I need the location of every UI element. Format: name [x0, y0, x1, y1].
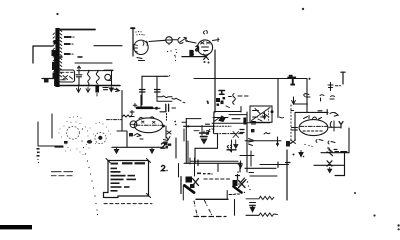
V1b plate pin dot: [162, 125, 165, 128]
junction dot: [186, 40, 188, 42]
notes box frame: [104, 161, 149, 198]
short dash: [249, 172, 254, 174]
label R blob: [286, 141, 290, 147]
tone pot R6: [130, 121, 137, 128]
bottom left black bar: [0, 225, 32, 229]
OT center vertical wire: [286, 150, 288, 200]
ground arrow under bus: [114, 148, 118, 153]
tiny label above rectifier: [57, 56, 82, 58]
upper supply wire: [75, 62, 112, 64]
V1a plate wire: [149, 40, 165, 41]
credit text line 1: [51, 171, 73, 176]
dotted bias vertical wire: [290, 105, 292, 145]
terminal row serif: [341, 151, 347, 153]
input jack J2 dotted envelope: [95, 132, 106, 143]
V1 grid stem wire: [132, 28, 134, 56]
PI bottom thick marks: [227, 149, 236, 151]
transformer winding blobs: [52, 40, 56, 79]
junction dot in OT box: [271, 110, 274, 113]
V4 top electrode marks: [304, 116, 322, 120]
coupling cap C2: [178, 37, 187, 43]
x marks on lower wire: [233, 132, 239, 145]
blob on bottom tap: [44, 79, 49, 83]
bias wire stub: [277, 137, 279, 146]
arrowhead under X: [234, 145, 238, 149]
pot terminal blob: [129, 133, 133, 136]
V1b internal dash-dot line: [136, 124, 162, 126]
transformer bottom tap wire: [42, 78, 58, 80]
jack pin dots below: [37, 148, 40, 163]
output transformer cluster left: [179, 164, 199, 201]
grid wire tick above V1b: [157, 96, 185, 103]
V4 left wire: [294, 113, 296, 140]
junction blob on B+ rail: [287, 75, 296, 86]
stray dots bottom right: [354, 192, 400, 230]
input jack J1 dotted envelope: [67, 126, 80, 139]
J2 center blob: [98, 136, 102, 140]
rectifier V5 envelope: [59, 70, 75, 82]
screen terminal top wire: [240, 155, 254, 157]
lower crossing wire: [245, 140, 281, 142]
chassis ground bus wire: [112, 146, 163, 148]
caret blob: [219, 116, 225, 122]
marks above label: [164, 140, 168, 143]
speckle marks around jacks: [59, 116, 111, 155]
V4 plate pin: [329, 121, 341, 131]
dash right of C6: [172, 107, 176, 109]
PI mid wire: [212, 122, 270, 125]
PI input vertical wire: [185, 119, 187, 163]
dots under pot: [168, 44, 177, 58]
dash marks: [318, 110, 322, 112]
arrow below terminal: [328, 168, 332, 173]
rectifier internal electrodes: [61, 72, 74, 80]
decoupling network C/R on V1: [140, 75, 173, 105]
network top wire: [142, 75, 168, 77]
cathode bypass cap with ground arrow: [200, 133, 209, 137]
speaker vertical wire: [234, 200, 236, 216]
dashed cone lines: [194, 201, 197, 215]
diagonal wire into caret: [214, 118, 220, 122]
PI upper wires: [213, 118, 240, 119]
V1 bottom stem marks: [137, 58, 145, 61]
dashed leader horizontal: [104, 203, 152, 205]
PI plate wire top: [215, 107, 242, 113]
grid network cluster above PI: [207, 91, 249, 108]
network left vertical wire: [141, 76, 143, 105]
filter choke R30: [95, 70, 99, 96]
leader dotted diagonal: [81, 140, 98, 215]
cap plates on left leg: [140, 90, 146, 93]
PI cathode vertical wire: [231, 140, 233, 152]
resistor R26: [259, 213, 277, 216]
tick at x198: [197, 160, 199, 166]
label 5 right of wire: [204, 54, 209, 60]
screen bypass cap C15: [328, 83, 333, 91]
label B bold: [190, 51, 193, 56]
6.3V heater wire to V1: [94, 45, 122, 47]
wire to C6: [160, 111, 166, 113]
triode V1b envelope: [134, 118, 163, 133]
grid stopper wire: [186, 118, 201, 120]
marks below cap: [320, 95, 335, 101]
tail box corner wire: [195, 134, 218, 164]
pentode V4 envelope: [299, 120, 328, 136]
label 2 upper: [162, 143, 168, 148]
ground arrow mid: [150, 148, 154, 153]
V2 plate wire: [213, 38, 220, 42]
short parallel wire: [183, 129, 185, 141]
plate feed vertical wire: [306, 79, 308, 112]
wire under B label: [182, 56, 206, 58]
hatched box network: [250, 106, 272, 122]
junction y on plate wire: [339, 122, 343, 129]
V4 screen arrow: [292, 97, 308, 104]
triode V1a envelope: [134, 40, 148, 54]
PI lower dash-dot wire: [214, 133, 244, 135]
serif on center vertical: [286, 162, 291, 164]
OT secondary wire 1: [260, 164, 289, 166]
dotted vertical right of box: [268, 108, 270, 122]
power transformer T1 winding column: [53, 28, 62, 87]
label 2 lower: [162, 165, 168, 170]
dotted wire: [214, 125, 231, 127]
dotted stem under C6: [166, 114, 168, 121]
bypass cap + ground: [246, 203, 259, 216]
label c above V2: [204, 31, 208, 35]
V4 internal dash-dot: [300, 125, 327, 127]
resistor marks on plate feed: [304, 94, 310, 98]
curved arrow to V4: [330, 113, 338, 117]
long tail wires to PI: [184, 162, 241, 164]
output transformer cluster right: [233, 175, 251, 194]
tiny type label above V1: [135, 31, 144, 36]
filter capacitor C22: [103, 70, 113, 91]
dashed bottom wire: [194, 216, 226, 218]
notes text lines: [111, 162, 146, 191]
triode V2 envelope: [197, 40, 212, 55]
marks under V4: [316, 140, 335, 145]
coupling path V1b plate marks: [166, 126, 171, 140]
bus junction dots: [78, 85, 113, 87]
heater line top wire: [57, 29, 95, 31]
V4 left cap marks: [292, 128, 298, 131]
V1b cathode marks: [134, 134, 143, 140]
cathode resistor R25: [246, 196, 274, 199]
phase inverter left vertical wires: [175, 138, 177, 158]
stray dot top right: [302, 8, 304, 10]
OT secondary wire 2: [245, 167, 276, 169]
filter capacitor C21: [86, 70, 90, 93]
bracket right: [335, 153, 345, 176]
wire cap to V2 grid: [186, 41, 196, 43]
speaker terminal row 2: [314, 161, 345, 166]
cap plates on mid leg: [155, 90, 161, 93]
wire arrow to dropping rail: [112, 88, 119, 91]
resistor cluster under tube: [165, 143, 172, 148]
V1a internal electrodes: [134, 41, 148, 52]
V2 anode rail vertical wire: [214, 50, 216, 133]
V1b top pins: [139, 117, 154, 119]
heater return verticals: [38, 114, 63, 146]
thick bar on rail: [243, 118, 246, 125]
tick on grid wire: [201, 126, 203, 136]
ground return bus wire: [58, 85, 120, 87]
tick wire top right: [341, 72, 345, 84]
V1b grid cap left: [130, 111, 134, 117]
dash-dot grid wire left: [107, 119, 122, 121]
curl at screen wire end: [280, 116, 284, 119]
network mid vertical wire: [156, 76, 158, 97]
secondary label 450: [64, 36, 75, 38]
speaker box corner vertical: [226, 191, 228, 200]
cluster blob: [190, 184, 195, 188]
cathode ground arrow: [299, 151, 303, 157]
speaker terminal row 1: [327, 149, 339, 156]
junction cross: [238, 163, 242, 172]
junction cross above tube: [133, 104, 137, 108]
coupling cap C6 plates: [166, 104, 169, 111]
resistor to ground wire: [157, 96, 172, 98]
primary left wire: [33, 46, 53, 63]
speaker box bottom wire: [196, 198, 228, 200]
cap plates left of rail: [240, 130, 244, 133]
thick wire blob: [137, 107, 152, 110]
PI grid wire: [184, 125, 215, 127]
resistor marks under grid wire: [194, 129, 214, 132]
left tick + a label: [206, 123, 210, 125]
small marks t.: [197, 173, 213, 175]
resistor R28 diagonal: [122, 115, 132, 117]
OT secondary wire 3: [250, 175, 277, 177]
junction dot on plate wire: [155, 107, 158, 110]
V1 stem top tick: [131, 27, 135, 29]
marks below box: [252, 122, 256, 125]
label a under V2 left: [196, 46, 199, 51]
V2 internal marks: [201, 42, 211, 51]
wire under V4: [321, 152, 349, 154]
output stage V4 top feed wire: [291, 110, 328, 115]
jack ground wire: [55, 146, 63, 148]
OT primary left wire: [178, 164, 180, 178]
screen terminal vertical: [250, 151, 252, 166]
notes box corner ticks: [106, 159, 151, 198]
B+ top bus wire: [77, 70, 113, 72]
V1b plate supply wire: [141, 95, 160, 108]
stray dot top left: [56, 13, 58, 15]
screen feed vertical wire: [277, 79, 279, 118]
filter capacitor C20: [76, 66, 82, 92]
PI plate wire second: [229, 114, 247, 116]
B+ rail horizontal wire: [194, 78, 307, 80]
volume pot R4: [166, 37, 173, 44]
tick below tail wire: [217, 164, 219, 172]
dashes right of corner: [229, 193, 240, 196]
V1b internal x marks: [142, 121, 156, 123]
arrow at secondary left: [239, 161, 242, 168]
slash marks: [241, 178, 247, 183]
HT dropping rail wire: [117, 91, 127, 148]
secondary label 6.3: [64, 53, 74, 55]
wire pot to cap: [173, 39, 178, 41]
OT primary wire down: [348, 128, 350, 153]
jack terminal mark: [64, 141, 68, 144]
squiggle mark R17: [264, 133, 270, 135]
dashed wire between clusters: [204, 178, 232, 180]
tap tick: [277, 162, 279, 168]
dots mid gap: [167, 50, 176, 61]
secondary label 117: [64, 43, 74, 45]
stub blob: [276, 143, 279, 146]
right coupling rail vertical: [246, 112, 248, 172]
